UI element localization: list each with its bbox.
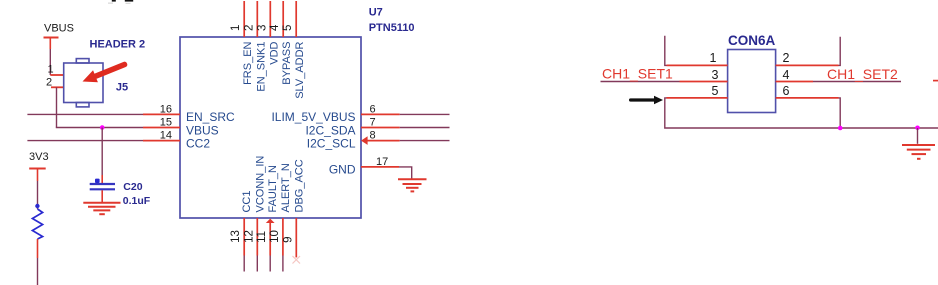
pin 17 GND stub (329, 156, 399, 177)
wire from CON6A pin 1 up (665, 36, 667, 66)
svg-text:HEADER 2: HEADER 2 (90, 39, 146, 51)
svg-text:13: 13 (230, 230, 242, 243)
pin 2 EN_SNK1 stub (256, 1, 258, 37)
CON6A pin 3 stub (680, 68, 728, 82)
pin 11 FAULT_N stub with red up arrow (256, 165, 279, 256)
svg-text:1: 1 (710, 51, 717, 65)
svg-text:PTN5110: PTN5110 (369, 22, 415, 34)
power port 3V3 bar symbol (29, 169, 46, 182)
wire J5 pin 2 down to VBUS wire (56, 87, 58, 127)
svg-text:EN_SRC: EN_SRC (186, 110, 235, 124)
wire from pin 11 (269, 256, 271, 272)
svg-text:0.1uF: 0.1uF (123, 195, 151, 207)
wire VBUS down to C20 (101, 128, 103, 176)
CON6A pin 6 stub (776, 84, 839, 98)
junction node pin6/bus (838, 126, 843, 131)
wire from pin 8 (400, 140, 450, 142)
CON6A pin 1 stub (667, 51, 728, 65)
ground symbol at right bus (902, 145, 935, 159)
svg-text:7: 7 (370, 117, 376, 129)
wire from CON6A pin 5 down to gnd bus (665, 98, 938, 128)
op-amp/IC U7 body (180, 37, 361, 218)
capacitor C20 top pin stub (101, 175, 103, 184)
pin 14 CC2 stub (143, 130, 210, 151)
connector J5 body (64, 59, 103, 107)
svg-text:6: 6 (370, 103, 376, 115)
wire from pin 12 (256, 256, 258, 272)
no-ERC cross at pin 9 end (293, 256, 301, 264)
svg-text:U7: U7 (369, 6, 383, 18)
svg-text:EN_SNK1: EN_SNK1 (255, 42, 267, 92)
ground symbol at U7 pin 17 (398, 179, 427, 191)
svg-text:2: 2 (46, 76, 52, 88)
svg-text:CH1_SET1: CH1_SET1 (602, 66, 673, 82)
svg-text:17: 17 (376, 156, 388, 168)
svg-text:VBUS: VBUS (44, 23, 74, 35)
svg-text:CH1_SET2: CH1_SET2 (827, 66, 898, 82)
svg-text:CC2: CC2 (186, 136, 210, 150)
wire EN_SRC net (27, 113, 143, 115)
svg-text:3: 3 (256, 25, 268, 31)
wire from pin 17 to ground (399, 167, 412, 179)
pin 4 BYPASS stub (282, 1, 284, 37)
svg-text:5: 5 (711, 84, 718, 98)
pin 3 VDD stub (269, 1, 271, 37)
pin 7 I2C_SDA stub (305, 117, 399, 138)
wire CH1_SET1 net (601, 81, 680, 83)
CON6A pin 4 stub (776, 68, 813, 82)
wire from CON6A pin 6 down to gnd bus (839, 98, 841, 128)
svg-text:ILIM_5V_VBUS: ILIM_5V_VBUS (271, 110, 355, 124)
wire stub CH1_SET2 at right page edge (933, 80, 938, 82)
wire from resistor to page edge (37, 258, 39, 285)
svg-text:I2C_SDA: I2C_SDA (305, 123, 355, 137)
svg-text:2: 2 (243, 25, 255, 31)
wire CC2 net (27, 140, 143, 142)
power port VBUS bar symbol (44, 38, 59, 50)
svg-text:C20: C20 (123, 181, 142, 193)
svg-text:FRS_EN: FRS_EN (242, 41, 254, 84)
wire from pin 6 (400, 113, 450, 115)
connector CON6A body (728, 50, 776, 113)
svg-text:9: 9 (282, 236, 294, 242)
wire bus down to ground (917, 128, 919, 144)
capacitor C20 bottom pin stub (101, 190, 103, 202)
wire VBUS vertical to J5 pin 1 (49, 49, 51, 75)
pin 5 SLV_ADDR stub (295, 1, 297, 37)
svg-text:10: 10 (269, 230, 281, 243)
svg-text:4: 4 (269, 24, 281, 31)
capacitor C20 plates (90, 179, 115, 190)
ground symbol below C20 (83, 203, 120, 214)
svg-text:SLV_ADDR: SLV_ADDR (294, 41, 306, 98)
pin 13 CC1 stub (230, 190, 253, 255)
svg-text:5: 5 (282, 25, 294, 31)
pin 10 ALERT_N stub (269, 163, 292, 255)
wire from pin 10 (282, 256, 284, 272)
pin 15 VBUS stub (143, 117, 219, 138)
wire from pin 13 (243, 256, 245, 272)
svg-text:BYPASS: BYPASS (281, 42, 293, 85)
svg-text:2: 2 (783, 51, 790, 65)
wire VBUS net horizontal (56, 127, 143, 129)
svg-text:11: 11 (256, 231, 268, 243)
svg-text:15: 15 (160, 117, 172, 129)
svg-text:VCONN_IN: VCONN_IN (254, 156, 266, 213)
svg-text:ALERT_N: ALERT_N (280, 163, 292, 212)
svg-text:14: 14 (160, 130, 172, 142)
connector J5 pin 1 (48, 63, 65, 75)
svg-text:CON6A: CON6A (728, 33, 776, 48)
svg-text:I2C_SCL: I2C_SCL (307, 136, 356, 150)
pin 8 I2C_SCL stub with red arrow (307, 130, 400, 151)
wire from pin 7 (400, 127, 450, 129)
pin 1 FRS_EN stub (243, 1, 245, 37)
svg-text:DBG_ACC: DBG_ACC (293, 159, 305, 212)
svg-text:12: 12 (243, 230, 255, 243)
annotation black arrow pointing at pin 5 wire (629, 96, 663, 105)
wire from CON6A pin 2 up (839, 37, 841, 66)
svg-text:1: 1 (230, 25, 242, 31)
svg-text:3V3: 3V3 (29, 151, 49, 163)
junction node bus/ground (915, 126, 920, 131)
resistor bottom pin stub (37, 239, 39, 258)
svg-text:4: 4 (783, 68, 790, 82)
junction node at resistor top (blue dot) (35, 204, 39, 208)
svg-text:FAULT_N: FAULT_N (267, 165, 279, 213)
resistor (zigzag) (32, 209, 42, 239)
svg-text:J5: J5 (116, 82, 128, 94)
svg-text:3: 3 (711, 68, 718, 82)
svg-text:VDD: VDD (268, 41, 280, 64)
connector J5 pin 2 (46, 76, 64, 88)
pin 16 EN_SRC stub (143, 103, 235, 124)
pin 6 ILIM_5V_VBUS stub (271, 103, 399, 124)
svg-text:16: 16 (160, 103, 172, 115)
CON6A pin 2 stub (776, 51, 839, 65)
svg-text:6: 6 (783, 84, 790, 98)
annotation red arrow pointing at J5 (80, 57, 129, 87)
svg-text:1: 1 (48, 63, 54, 75)
svg-text:GND: GND (329, 163, 356, 177)
wire 3V3 to resistor (37, 181, 39, 209)
CON6A pin 5 stub (667, 84, 728, 98)
pin 12 VCONN_IN stub (243, 156, 266, 256)
svg-text:VBUS: VBUS (186, 123, 219, 137)
pin 9 DBG_ACC stub (282, 159, 305, 257)
svg-text:8: 8 (370, 130, 376, 142)
svg-text:CC1: CC1 (241, 190, 253, 212)
cut-off text remnant top-left (108, 0, 133, 4)
wire CH1_SET2 net (813, 81, 901, 83)
junction node VBUS/C20 (100, 125, 105, 130)
